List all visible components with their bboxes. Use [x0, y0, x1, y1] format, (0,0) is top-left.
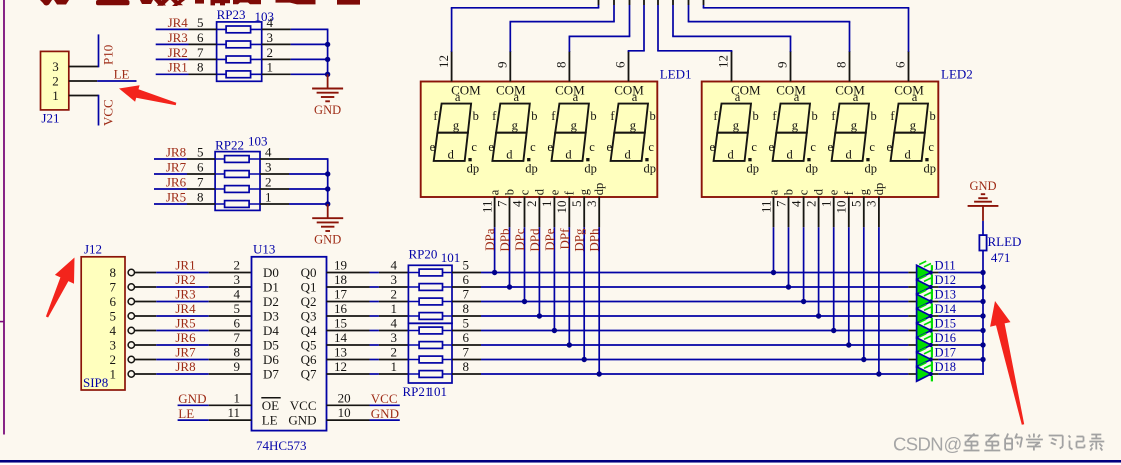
wire JR5 (J12 pin 4 to U13 pin 6) — [135, 330, 252, 332]
svg-text:b: b — [531, 109, 537, 123]
J12 pin 1 circle — [128, 371, 134, 377]
wire GND to U13 pin 1 (OE) — [178, 404, 252, 406]
svg-text:5: 5 — [463, 316, 470, 331]
svg-text:dp: dp — [806, 162, 819, 176]
svg-text:VCC: VCC — [290, 398, 317, 413]
svg-text:a: a — [455, 90, 461, 104]
wire J21 pin 2 (LE) — [69, 80, 137, 82]
svg-text:e: e — [607, 140, 613, 154]
svg-text:dp: dp — [644, 162, 657, 176]
svg-text:D6: D6 — [263, 352, 279, 367]
svg-text:g: g — [630, 119, 637, 133]
junction bus row 8 / LED2 dp — [876, 371, 881, 376]
wire RP22 pin 4 to GND bus — [260, 158, 329, 160]
svg-text:DPe: DPe — [542, 228, 557, 251]
svg-text:2: 2 — [267, 45, 274, 60]
svg-text:8: 8 — [834, 62, 849, 69]
LED diode D15 — [917, 319, 933, 338]
svg-text:13: 13 — [334, 345, 347, 360]
svg-text:1: 1 — [234, 390, 241, 405]
wire LED1 COM 9 to top connector — [510, 0, 615, 52]
wire JR4 (J12 pin 5 to U13 pin 5) — [135, 315, 252, 317]
wire LED2 b to bus row 2 — [788, 227, 790, 287]
svg-text:2: 2 — [391, 287, 398, 302]
svg-text:4: 4 — [788, 200, 803, 207]
LED1 COM pin 6 stub — [628, 51, 630, 82]
svg-text:COM: COM — [555, 82, 585, 97]
svg-text:JR5: JR5 — [166, 189, 186, 204]
junction RP23 row4 — [325, 72, 330, 77]
watermark chinese characters — [964, 434, 1105, 451]
svg-text:Q6: Q6 — [301, 352, 317, 367]
svg-text:3: 3 — [391, 272, 398, 287]
svg-text:17: 17 — [334, 287, 348, 302]
junction bus row 4 / LED1 d — [537, 313, 542, 318]
sheet left border — [3, 0, 5, 435]
resistor pack RP21 — [403, 323, 453, 399]
svg-text:a: a — [488, 189, 502, 195]
junction bus row 7 / LED2 g — [861, 357, 866, 362]
svg-text:D15: D15 — [935, 317, 957, 331]
svg-text:c: c — [810, 140, 816, 154]
wire LED2 f to bus row 6 — [848, 227, 850, 345]
svg-text:D0: D0 — [263, 265, 279, 280]
wire JR3 (J12 pin 6 to U13 pin 4) — [135, 301, 252, 303]
svg-text:1: 1 — [110, 367, 117, 382]
wire U13 pin 10 to GND — [327, 419, 400, 421]
wire U13 Q3 pin 16 to RP20 pin 1 — [327, 315, 409, 317]
svg-text:d: d — [506, 148, 513, 162]
LED2 COM pin 9 stub — [790, 51, 792, 82]
sheet border tick — [0, 321, 4, 323]
svg-text:b: b — [929, 109, 935, 123]
svg-text:101: 101 — [428, 384, 448, 399]
svg-text:dp: dp — [865, 162, 878, 176]
J12 pin 7 circle — [128, 284, 134, 290]
wire DPc (LED1 c to bus row 3) — [524, 227, 526, 301]
svg-text:DPf: DPf — [557, 228, 572, 250]
svg-text:d: d — [624, 148, 631, 162]
svg-text:D16: D16 — [935, 331, 957, 345]
wire bus row 2 (RP output to D12) — [452, 286, 984, 288]
svg-text:GND: GND — [178, 391, 206, 406]
svg-text:d: d — [727, 148, 734, 162]
svg-text:dp: dp — [747, 162, 760, 176]
wire bus row 6 (RP output to D16) — [452, 344, 984, 346]
svg-text:4: 4 — [267, 15, 274, 30]
svg-text:JR1: JR1 — [175, 258, 195, 273]
junction RP22 row3 — [325, 186, 330, 191]
wire RP23 pin 3 to GND bus — [262, 43, 329, 45]
svg-text:12: 12 — [334, 359, 347, 374]
svg-text:2: 2 — [803, 201, 818, 208]
RP20 resistor element 3 — [408, 298, 452, 305]
J12 pin 4 circle — [128, 327, 134, 333]
svg-text:Q3: Q3 — [301, 309, 317, 324]
ground GND (RLED) — [968, 179, 999, 221]
LED diode D16 — [917, 334, 933, 353]
junction RP22 row4 — [325, 201, 330, 206]
svg-text:d: d — [786, 148, 793, 162]
LED1 segment pin d (pin 2) — [524, 188, 546, 227]
LED2 digit 4 seven-segment symbol — [887, 82, 936, 175]
svg-text:DPh: DPh — [587, 228, 602, 252]
junction cathode bus row 1 — [980, 270, 985, 275]
LED2 segment pin c (pin 4) — [788, 189, 810, 227]
svg-text:8: 8 — [463, 359, 470, 374]
wire U13 Q7 pin 12 to RP21 pin 1 — [327, 373, 409, 375]
LED1 COM pin 12 stub — [451, 51, 453, 82]
wire DPh (LED1 dp to bus row 8) — [598, 227, 600, 374]
junction bus row 3 / LED2 c — [801, 299, 806, 304]
LED2 digit 3 seven-segment symbol — [828, 82, 877, 175]
sheet bottom border — [0, 460, 1121, 463]
display LED2 — [702, 82, 939, 198]
svg-text:9: 9 — [775, 62, 790, 69]
resistor pack RP22 — [215, 134, 267, 211]
svg-text:d: d — [565, 148, 572, 162]
wire LED2 COM 9 to top connector — [672, 0, 791, 52]
svg-text:JR7: JR7 — [166, 159, 187, 174]
wire JR5 to RP22 pin 8 — [154, 203, 215, 205]
svg-text:a: a — [794, 90, 800, 104]
wire JR4 to RP23 pin 5 — [156, 28, 217, 30]
red arrow pointing at diode bus — [990, 301, 1024, 425]
wire LED1 COM 12 to top connector — [451, 0, 600, 52]
RP20 resistor element 2 — [408, 284, 452, 291]
LED1 segment pin e (pin 1) — [539, 189, 561, 227]
svg-text:D14: D14 — [935, 302, 957, 316]
wire RP22 pin 3 to GND bus — [260, 173, 329, 175]
svg-text:1: 1 — [391, 359, 398, 374]
junction RP23 row3 — [325, 57, 330, 62]
svg-text:b: b — [473, 109, 479, 123]
svg-text:SIP8: SIP8 — [83, 375, 108, 390]
LED diode D13 — [917, 290, 933, 309]
svg-text:b: b — [811, 109, 817, 123]
svg-text:6: 6 — [110, 294, 117, 309]
LED1 COM pin 9 stub — [509, 51, 511, 82]
junction bus row 7 / LED1 g — [582, 357, 587, 362]
svg-text:7: 7 — [234, 330, 241, 345]
svg-text:7: 7 — [463, 345, 470, 360]
wire DPe (LED1 e to bus row 5) — [553, 227, 555, 330]
LED1 segment pin a (pin 11) — [479, 189, 501, 227]
svg-text:c: c — [648, 140, 654, 154]
svg-text:RP22: RP22 — [215, 138, 244, 153]
svg-text:dp: dp — [467, 162, 480, 176]
svg-text:d: d — [812, 188, 826, 195]
svg-text:@: @ — [944, 434, 963, 455]
svg-text:c: c — [928, 140, 934, 154]
svg-text:d: d — [904, 148, 911, 162]
LED2 COM pin 8 stub — [849, 51, 851, 82]
svg-text:7: 7 — [463, 287, 470, 302]
svg-text:18: 18 — [334, 272, 347, 287]
svg-text:D5: D5 — [263, 338, 279, 353]
svg-text:6: 6 — [463, 272, 470, 287]
junction bus row 6 / LED1 f — [567, 342, 572, 347]
RP21 resistor element 4 — [408, 371, 452, 378]
svg-text:6: 6 — [197, 30, 204, 45]
connector J21 — [41, 51, 69, 125]
LED1 COM pin 8 stub — [568, 51, 570, 82]
svg-text:5: 5 — [197, 15, 204, 30]
wire RP23 pin 1 to GND bus — [262, 73, 329, 75]
svg-text:JR6: JR6 — [166, 174, 187, 189]
svg-text:LE: LE — [262, 413, 278, 428]
svg-text:8: 8 — [197, 60, 204, 75]
wire JR1 (J12 pin 8 to U13 pin 2) — [135, 272, 252, 274]
svg-text:COM: COM — [776, 82, 806, 97]
junction bus row 5 / LED2 e — [831, 328, 836, 333]
svg-text:LE: LE — [114, 66, 130, 81]
svg-text:JR7: JR7 — [175, 345, 196, 360]
LED2 segment pin a (pin 11) — [758, 189, 780, 227]
svg-text:e: e — [488, 140, 494, 154]
svg-text:LED2: LED2 — [941, 67, 973, 82]
wire U13 Q0 pin 19 to RP20 pin 4 — [327, 272, 409, 274]
wire bus row 3 (RP output to D13) — [452, 301, 984, 303]
svg-text:GND: GND — [314, 103, 341, 117]
wire bus row 4 (RP output to D14) — [452, 315, 984, 317]
svg-text:e: e — [547, 140, 553, 154]
wire DPd (LED1 d to bus row 4) — [538, 227, 540, 316]
wire U13 pin 20 to VCC — [327, 404, 400, 406]
wire RP22 gnd bus vertical — [327, 159, 329, 206]
svg-text:DPa: DPa — [482, 228, 497, 251]
svg-text:e: e — [547, 189, 561, 195]
svg-text:7: 7 — [110, 280, 117, 295]
svg-text:dp: dp — [584, 162, 597, 176]
svg-text:g: g — [857, 188, 871, 195]
svg-text:D13: D13 — [935, 288, 957, 302]
svg-text:COM: COM — [835, 82, 865, 97]
svg-text:7: 7 — [773, 200, 788, 207]
svg-text:e: e — [710, 140, 716, 154]
svg-text:RLED: RLED — [988, 234, 1022, 249]
svg-text:U13: U13 — [253, 242, 275, 257]
LED1 segment pin b (pin 7) — [494, 189, 516, 227]
svg-text:dp: dp — [592, 183, 606, 196]
wire DPa (LED1 a to bus row 1) — [494, 227, 496, 272]
wire DPb (LED1 b to bus row 2) — [509, 227, 511, 287]
svg-text:dp: dp — [525, 162, 538, 176]
junction bus row 6 / LED2 f — [846, 342, 851, 347]
svg-text:b: b — [752, 109, 758, 123]
svg-text:3: 3 — [391, 330, 398, 345]
svg-text:3: 3 — [110, 338, 117, 353]
svg-text:JR1: JR1 — [168, 60, 188, 75]
svg-text:1: 1 — [391, 301, 398, 316]
svg-text:c: c — [589, 140, 595, 154]
svg-text:9: 9 — [495, 62, 510, 69]
junction bus row 2 / LED2 b — [786, 284, 791, 289]
LED2 segment pin dp (pin 3) — [864, 183, 886, 228]
svg-text:6: 6 — [234, 316, 241, 331]
LED1 digit 3 seven-segment symbol — [547, 82, 596, 175]
junction bus row 8 / LED1 dp — [597, 371, 602, 376]
svg-text:7: 7 — [494, 200, 509, 207]
svg-text:COM: COM — [496, 82, 526, 97]
svg-text:5: 5 — [463, 258, 470, 273]
svg-text:c: c — [869, 140, 875, 154]
svg-text:g: g — [453, 119, 460, 133]
J12 pin 8 circle — [128, 269, 134, 275]
wire LED1 COM 6 to top connector — [628, 0, 645, 52]
svg-text:101: 101 — [441, 250, 461, 265]
svg-text:8: 8 — [554, 62, 569, 69]
svg-text:a: a — [735, 90, 741, 104]
svg-text:5: 5 — [110, 309, 117, 324]
svg-text:OE: OE — [262, 398, 279, 413]
svg-text:5: 5 — [849, 201, 864, 208]
LED2 segment pin f (pin 10) — [834, 190, 856, 227]
svg-text:1: 1 — [265, 189, 272, 204]
svg-text:3: 3 — [267, 30, 274, 45]
svg-text:e: e — [828, 140, 834, 154]
junction bus row 1 / LED2 a — [771, 270, 776, 275]
svg-text:5: 5 — [234, 301, 241, 316]
wire J21 pin 3 to P10 — [69, 34, 99, 67]
svg-text:d: d — [845, 148, 852, 162]
RP21 resistor element 2 — [408, 342, 452, 349]
svg-text:VCC: VCC — [371, 391, 398, 406]
wire DPf (LED1 f to bus row 6) — [568, 227, 570, 345]
svg-text:g: g — [512, 119, 519, 133]
svg-text:2: 2 — [391, 345, 398, 360]
svg-text:JR5: JR5 — [175, 316, 195, 331]
svg-text:10: 10 — [834, 201, 849, 214]
svg-text:JR3: JR3 — [175, 287, 195, 302]
junction cathode bus row 5 — [980, 328, 985, 333]
LED diode D11 — [917, 261, 933, 280]
svg-text:e: e — [887, 140, 893, 154]
wire LED2 g to bus row 7 — [863, 227, 865, 359]
svg-text:DPc: DPc — [512, 228, 527, 251]
svg-text:2: 2 — [524, 201, 539, 208]
svg-text:16: 16 — [334, 301, 348, 316]
svg-text:RP23: RP23 — [217, 7, 246, 22]
svg-text:JR3: JR3 — [168, 30, 188, 45]
LED1 segment pin g (pin 5) — [569, 188, 591, 227]
svg-text:a: a — [573, 90, 579, 104]
LED1 digit 2 seven-segment symbol — [488, 82, 537, 175]
wire RP22 pin 1 to GND bus — [260, 203, 329, 205]
resistor pack RP23 — [217, 7, 274, 81]
wire U13 Q5 pin 14 to RP21 pin 3 — [327, 344, 409, 346]
svg-text:a: a — [912, 90, 918, 104]
svg-text:COM: COM — [894, 82, 924, 97]
wire LE to U13 pin 11 — [178, 419, 252, 421]
svg-text:Q7: Q7 — [301, 367, 317, 382]
wire RP23 pin 2 to GND bus — [262, 58, 329, 60]
wire bus row 5 (RP output to D15) — [452, 330, 984, 332]
svg-text:Q2: Q2 — [301, 294, 317, 309]
svg-text:GND: GND — [969, 179, 996, 193]
wire JR8 to RP22 pin 5 — [154, 158, 215, 160]
junction bus row 3 / LED1 c — [522, 299, 527, 304]
red arrow pointing at LE wire — [119, 85, 176, 105]
LED1 digit 1 seven-segment symbol — [430, 82, 482, 175]
wire JR6 to RP22 pin 7 — [154, 188, 215, 190]
svg-text:a: a — [514, 90, 520, 104]
wire LED2 e to bus row 5 — [833, 227, 835, 330]
svg-text:b: b — [782, 189, 796, 195]
wire GND to RLED — [982, 221, 984, 235]
svg-text:JR4: JR4 — [168, 15, 189, 30]
svg-text:3: 3 — [52, 59, 59, 74]
svg-text:a: a — [853, 90, 859, 104]
svg-text:JR2: JR2 — [168, 45, 188, 60]
junction cathode bus row 3 — [980, 299, 985, 304]
wire bus row 8 (RP output to D18) — [452, 373, 984, 375]
svg-text:g: g — [851, 119, 858, 133]
svg-text:c: c — [751, 140, 757, 154]
LED2 digit 2 seven-segment symbol — [769, 82, 818, 175]
RP21 resistor element 1 — [408, 327, 452, 334]
svg-text:JR2: JR2 — [175, 272, 195, 287]
svg-text:D1: D1 — [263, 280, 279, 295]
svg-text:12: 12 — [436, 55, 451, 68]
svg-text:3: 3 — [265, 159, 272, 174]
resistor RLED — [979, 234, 1021, 265]
svg-text:JR4: JR4 — [175, 301, 196, 316]
svg-text:e: e — [827, 189, 841, 195]
LED2 digit 1 seven-segment symbol — [710, 82, 762, 175]
junction cathode bus row 7 — [980, 357, 985, 362]
svg-text:DPg: DPg — [572, 228, 587, 252]
svg-text:c: c — [797, 189, 811, 195]
svg-text:RP20: RP20 — [409, 247, 438, 262]
wire JR2 to RP23 pin 7 — [156, 58, 217, 60]
svg-text:Q0: Q0 — [301, 265, 317, 280]
svg-text:3: 3 — [234, 272, 241, 287]
svg-text:g: g — [733, 119, 740, 133]
junction bus row 4 / LED2 d — [816, 313, 821, 318]
J12 pin 2 circle — [128, 356, 134, 362]
wire LED2 COM 6 to top connector — [703, 0, 910, 52]
junction RP23 row2 — [325, 42, 330, 47]
svg-text:6: 6 — [893, 61, 908, 68]
svg-text:Q1: Q1 — [301, 280, 317, 295]
wire JR8 (J12 pin 1 to U13 pin 9) — [135, 373, 252, 375]
svg-text:c: c — [530, 140, 536, 154]
wire LED2 COM 12 to top connector — [657, 0, 732, 52]
wire LED1 COM 8 to top connector — [569, 0, 631, 52]
junction bus row 1 / LED1 a — [492, 270, 497, 275]
svg-text:JR8: JR8 — [166, 144, 186, 159]
svg-text:4: 4 — [110, 323, 117, 338]
svg-text:5: 5 — [197, 144, 204, 159]
J12 pin 6 circle — [128, 298, 134, 304]
wire bus row 7 (RP output to D17) — [452, 359, 984, 361]
RP21 resistor element 3 — [408, 356, 452, 363]
RP20 resistor element 1 — [408, 269, 452, 276]
LED2 segment pin b (pin 7) — [773, 189, 795, 227]
svg-text:7: 7 — [197, 174, 204, 189]
svg-text:dp: dp — [872, 183, 886, 196]
svg-text:4: 4 — [509, 200, 524, 207]
svg-text:15: 15 — [334, 316, 347, 331]
svg-text:g: g — [910, 119, 917, 133]
svg-text:8: 8 — [110, 265, 117, 280]
wire LED2 a to bus row 1 — [773, 227, 775, 272]
svg-text:D17: D17 — [935, 346, 957, 360]
svg-text:d: d — [448, 148, 455, 162]
wire JR7 (J12 pin 2 to U13 pin 8) — [135, 359, 252, 361]
svg-text:2: 2 — [265, 174, 272, 189]
